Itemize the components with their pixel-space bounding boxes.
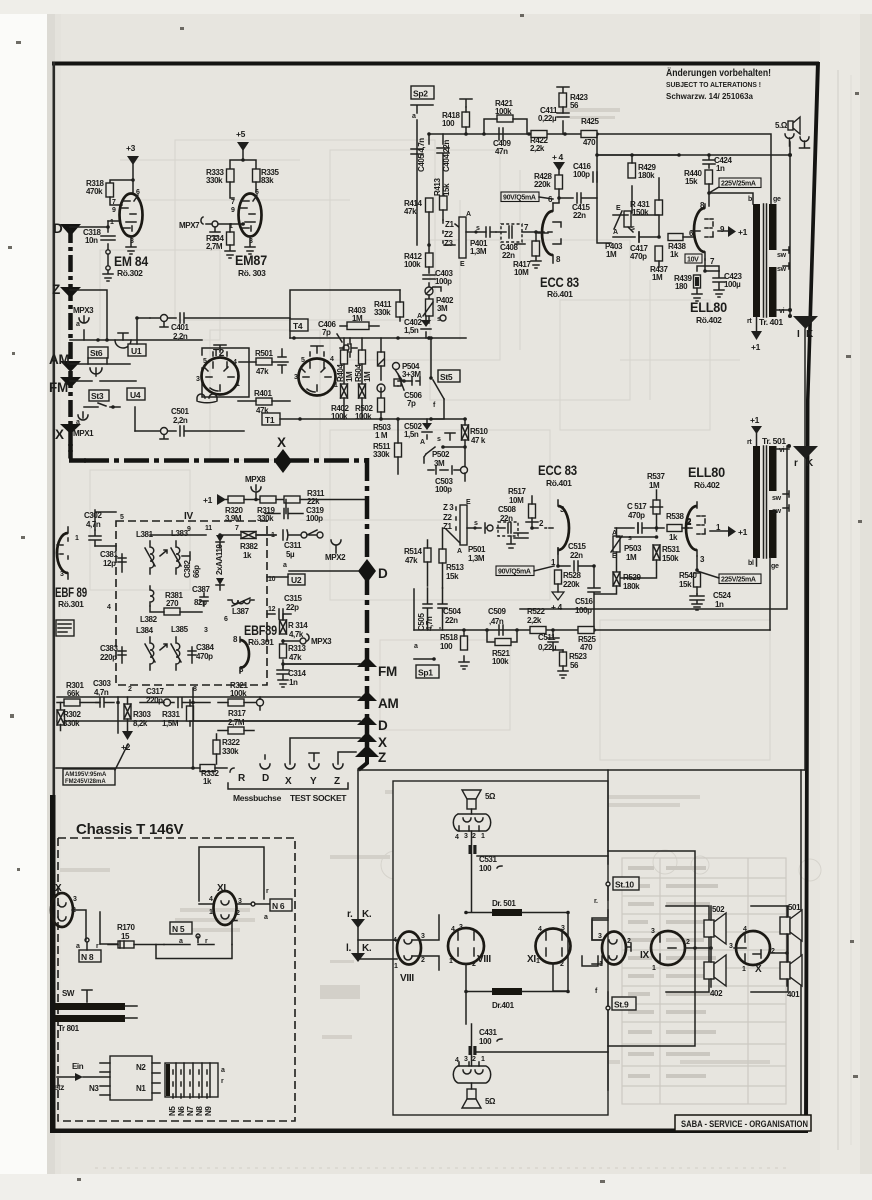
caps below P502 — [428, 466, 460, 474]
svg-text:15k: 15k — [679, 580, 692, 589]
capacitor C314 1n — [277, 664, 289, 687]
secondary bars — [769, 446, 777, 491]
svg-text:D: D — [53, 221, 63, 236]
svg-text:5: 5 — [203, 358, 207, 365]
svg-text:r: r — [794, 458, 798, 469]
contact at 125,340 — [115, 333, 131, 348]
svg-text:1: 1 — [449, 958, 453, 965]
svg-text:U4: U4 — [130, 390, 141, 400]
svg-text:47k: 47k — [289, 653, 302, 662]
trimmer arrows between coils — [160, 550, 167, 556]
svg-text:180k: 180k — [638, 171, 655, 180]
svg-text:sw: sw — [772, 508, 782, 515]
resistor chain x=381 — [378, 352, 385, 366]
resistor R333 — [227, 169, 235, 182]
svg-text:SABA - SERVICE - ORGANISATION: SABA - SERVICE - ORGANISATION — [681, 1119, 808, 1129]
svg-text:Z3: Z3 — [444, 239, 453, 248]
main bottom bus y=630 — [414, 629, 770, 631]
svg-text:R322: R322 — [222, 738, 240, 747]
svg-text:AM: AM — [378, 696, 399, 711]
svg-text:1k: 1k — [669, 533, 678, 542]
svg-text:MPX3: MPX3 — [311, 637, 332, 646]
resistor R425 470 — [581, 131, 597, 138]
svg-text:+1: +1 — [203, 495, 213, 505]
svg-text:100µ: 100µ — [724, 280, 741, 289]
tube EBF89 Rö.301 first — [57, 533, 68, 573]
MPX3 socket right — [283, 634, 309, 641]
svg-text:2: 2 — [421, 957, 425, 964]
svg-text:Messbuchse: Messbuchse — [233, 793, 282, 803]
svg-text:330k: 330k — [206, 176, 223, 185]
svg-text:225V/25mA: 225V/25mA — [721, 577, 756, 584]
svg-text:7: 7 — [231, 199, 235, 206]
resistor R320 3,9M — [228, 496, 244, 503]
svg-text:R425: R425 — [581, 117, 599, 126]
svg-text:R: R — [238, 773, 246, 784]
svg-text:sw: sw — [777, 266, 787, 273]
svg-text:D: D — [262, 773, 269, 784]
svg-text:TEST SOCKET: TEST SOCKET — [290, 793, 347, 803]
X2 arrow node — [357, 732, 377, 742]
svg-text:Z1: Z1 — [445, 220, 454, 229]
svg-text:Sp2: Sp2 — [413, 89, 428, 99]
choke Dr 401 — [492, 988, 522, 995]
U4 box — [127, 388, 145, 400]
svg-text:330k: 330k — [373, 450, 390, 459]
svg-text:Rö.402: Rö.402 — [696, 315, 722, 325]
svg-text:3: 3 — [196, 376, 200, 383]
small oval tube VIII left — [397, 932, 421, 965]
svg-text:K.: K. — [362, 943, 372, 954]
svg-text:1M: 1M — [626, 553, 637, 562]
svg-text:4,7n: 4,7n — [86, 520, 101, 529]
+1 arrow from pin9 — [718, 230, 728, 232]
svg-text:ELL80: ELL80 — [690, 300, 727, 315]
svg-text:90V/Q5mA: 90V/Q5mA — [503, 195, 536, 202]
socket Y — [309, 753, 319, 761]
svg-text:C524: C524 — [713, 591, 731, 600]
wire from U1 up to C401 row — [137, 318, 150, 344]
svg-text:220p: 220p — [146, 696, 163, 705]
node X arrow — [60, 424, 81, 434]
svg-text:1: 1 — [481, 833, 485, 840]
curl symbol left — [197, 394, 217, 403]
wire top node — [131, 178, 135, 182]
svg-text:R528: R528 — [563, 571, 581, 580]
svg-text:T1: T1 — [265, 415, 275, 425]
svg-text:6: 6 — [255, 189, 259, 196]
resistor R438 1k — [668, 234, 683, 241]
resistor R332 1k — [200, 765, 215, 772]
svg-text:A: A — [420, 439, 425, 446]
capacitor C311 5u polarized — [283, 530, 288, 540]
svg-text:C516: C516 — [575, 597, 593, 606]
svg-text:X: X — [277, 435, 286, 450]
svg-text:Dr.401: Dr.401 — [492, 1001, 515, 1010]
module box around T2 — [202, 348, 249, 397]
svg-text:Rö.401: Rö.401 — [547, 289, 573, 299]
svg-text:22n: 22n — [570, 551, 583, 560]
svg-text:R529: R529 — [623, 573, 641, 582]
transformer Tr401 primary bar — [753, 204, 760, 317]
svg-text:12p: 12p — [103, 559, 116, 568]
svg-text:180: 180 — [675, 282, 688, 291]
svg-text:R401: R401 — [254, 389, 272, 398]
cathode wires — [697, 259, 719, 271]
resistor R514 47k — [424, 548, 431, 562]
resistor R513 15k — [439, 549, 446, 563]
svg-text:a: a — [264, 914, 268, 921]
svg-text:XI: XI — [527, 954, 536, 965]
wire FM row — [283, 663, 360, 665]
tube ELL80 second — [686, 506, 697, 550]
svg-text:D: D — [378, 718, 388, 733]
Netz block — [110, 1056, 152, 1100]
P502 contact T — [445, 433, 455, 440]
svg-text:R 314: R 314 — [288, 621, 308, 630]
svg-text:L387: L387 — [232, 607, 250, 616]
St9 connector — [606, 1006, 610, 1010]
svg-text:,47n: ,47n — [489, 617, 504, 626]
resistor R331 1,5M — [187, 706, 194, 721]
tube EM84 Rö.302 — [120, 194, 143, 237]
svg-text:L385: L385 — [171, 625, 189, 634]
svg-text:Chassis T 146V: Chassis T 146V — [76, 821, 183, 838]
svg-text:47k: 47k — [256, 367, 269, 376]
svg-text:St5: St5 — [440, 372, 453, 382]
svg-text:Z2: Z2 — [444, 230, 453, 239]
svg-text:3: 3 — [421, 933, 425, 940]
node FM arrow — [60, 377, 81, 388]
svg-text:N2: N2 — [136, 1063, 146, 1072]
svg-text:R513: R513 — [446, 563, 464, 572]
svg-text:R514: R514 — [404, 547, 422, 556]
tube VIII big circle — [448, 928, 484, 964]
resistor R529 180k boxed — [613, 572, 620, 586]
svg-text:10M: 10M — [514, 268, 529, 277]
svg-text:MPX3: MPX3 — [73, 306, 94, 315]
switch contacts below C318 — [106, 250, 110, 254]
module box — [393, 781, 608, 1115]
svg-text:330k: 330k — [374, 308, 391, 317]
bracket Messbuchse — [228, 783, 348, 789]
resistor R523 56 — [560, 652, 567, 666]
vertical wire C405 branch — [416, 120, 418, 245]
svg-text:Y: Y — [310, 776, 317, 787]
svg-text:100p: 100p — [575, 606, 592, 615]
svg-text:E: E — [466, 499, 471, 506]
svg-text:2,2k: 2,2k — [530, 144, 545, 153]
svg-text:15k: 15k — [685, 177, 698, 186]
resistor R510 47k — [462, 425, 469, 440]
svg-text:Tr 801: Tr 801 — [58, 1024, 80, 1033]
FM arrow node — [357, 657, 377, 667]
svg-text:a: a — [414, 643, 418, 650]
svg-text:2: 2 — [236, 910, 240, 917]
svg-text:0,22µ: 0,22µ — [538, 114, 557, 123]
wire bus corner to speaker line — [709, 193, 753, 204]
socket X — [285, 764, 295, 769]
svg-text:C509: C509 — [488, 607, 506, 616]
svg-text:5Ω: 5Ω — [485, 792, 496, 801]
svg-text:3M: 3M — [437, 304, 448, 313]
svg-text:401: 401 — [787, 990, 800, 999]
svg-text:502: 502 — [712, 905, 725, 914]
svg-text:2,7M: 2,7M — [228, 718, 245, 727]
svg-text:100p: 100p — [435, 485, 452, 494]
svg-text:100p: 100p — [306, 514, 323, 523]
svg-text:A: A — [457, 548, 462, 555]
box around 501/401 — [751, 906, 788, 992]
svg-text:Z: Z — [52, 282, 60, 297]
svg-text:R170: R170 — [117, 923, 135, 932]
svg-text:1k: 1k — [203, 777, 212, 786]
svg-text:4: 4 — [330, 356, 334, 363]
wire top row inside box — [150, 534, 276, 536]
svg-text:N 5: N 5 — [172, 924, 185, 934]
svg-text:X: X — [55, 427, 64, 442]
main top bus y=134 — [429, 134, 790, 204]
svg-text:7: 7 — [112, 199, 116, 206]
svg-text:R517: R517 — [508, 487, 526, 496]
trimmer circle — [425, 287, 433, 295]
resistor R525 470 — [578, 627, 594, 634]
tube ELL80 Rö.402 pentode — [694, 208, 705, 252]
tube EM87 Rö.303 — [239, 194, 262, 237]
tube T3 triode-hexode circle — [299, 359, 336, 396]
svg-text:1M: 1M — [606, 250, 617, 259]
svg-text:Änderungen vorbehalten!: Änderungen vorbehalten! — [666, 66, 771, 79]
Sp2 box — [411, 86, 434, 99]
svg-text:R313: R313 — [288, 644, 306, 653]
svg-text:3: 3 — [73, 896, 77, 903]
svg-text:X: X — [378, 735, 387, 750]
svg-text:C515: C515 — [568, 542, 586, 551]
capacitor C319 100p — [265, 500, 303, 519]
tube IX circle — [651, 931, 685, 965]
striped connector block — [165, 1063, 218, 1097]
socket R — [230, 768, 234, 772]
resistor R319 330k — [260, 496, 276, 503]
resistor R313 47k — [280, 644, 287, 658]
svg-text:5: 5 — [301, 357, 305, 364]
T2 top cap — [214, 345, 226, 352]
svg-text:vi: vi — [779, 308, 785, 315]
outer box top wire — [358, 769, 805, 771]
svg-text:L384: L384 — [136, 626, 154, 635]
antenna T top — [460, 99, 472, 107]
AM arrow node — [357, 691, 377, 701]
resistor R437 1M — [655, 246, 663, 261]
svg-text:3: 3 — [651, 928, 655, 935]
node AM arrow — [60, 361, 81, 372]
resistor R302 330k boxed — [57, 710, 65, 725]
svg-text:Sp1: Sp1 — [418, 668, 433, 678]
svg-text:Rö.402: Rö.402 — [694, 480, 720, 490]
T4 box — [290, 319, 308, 331]
resistor R440 15k — [705, 170, 713, 184]
svg-text:1: 1 — [394, 963, 398, 970]
node to bus — [116, 701, 120, 705]
svg-text:90V/Q5mA: 90V/Q5mA — [498, 569, 531, 576]
tube ECC83 Ro.401 triode A — [542, 211, 553, 255]
svg-text:N1: N1 — [136, 1084, 146, 1093]
svg-text:etz: etz — [54, 1083, 64, 1092]
faint bottom dotted line — [95, 1167, 790, 1169]
svg-text:s: s — [437, 436, 441, 443]
svg-text:470: 470 — [580, 643, 593, 652]
D diamond node — [358, 559, 376, 583]
capacitor C423 100u — [713, 271, 725, 297]
svg-text:a: a — [76, 321, 80, 328]
+1 arrow bottom — [756, 317, 758, 331]
svg-text:22p: 22p — [286, 603, 299, 612]
resistor R428 220k — [555, 175, 563, 189]
svg-text:St3: St3 — [91, 391, 104, 401]
svg-text:r.: r. — [594, 898, 598, 905]
svg-text:15k: 15k — [442, 183, 451, 196]
anode wire up — [553, 202, 559, 204]
svg-text:ECC 83: ECC 83 — [540, 275, 580, 290]
svg-text:SW: SW — [62, 989, 75, 998]
svg-text:2,2n: 2,2n — [173, 332, 188, 341]
svg-text:X: X — [285, 776, 292, 787]
svg-text:56: 56 — [570, 661, 579, 670]
svg-text:+3: +3 — [126, 143, 136, 153]
svg-text:100k: 100k — [492, 657, 509, 666]
node D arrow — [60, 224, 81, 236]
svg-text:22n: 22n — [502, 251, 515, 260]
svg-text:s: s — [476, 225, 480, 232]
svg-text:7: 7 — [235, 525, 239, 532]
tube socket top — [453, 814, 490, 831]
svg-text:s: s — [474, 520, 478, 527]
svg-text:10V: 10V — [687, 257, 699, 264]
10V box — [685, 254, 702, 263]
svg-text:N 8: N 8 — [81, 952, 94, 962]
svg-text:1: 1 — [742, 966, 746, 973]
speaker 5ohm top — [462, 790, 481, 799]
svg-text:R331: R331 — [162, 710, 180, 719]
pin1 wire — [210, 227, 220, 239]
svg-text:1: 1 — [481, 1056, 485, 1063]
capacitor C409 47n — [499, 128, 503, 140]
svg-text:220p: 220p — [100, 653, 117, 662]
speaker 401 — [780, 962, 790, 979]
svg-text:Dr. 501: Dr. 501 — [492, 899, 516, 908]
svg-text:47 k: 47 k — [471, 436, 486, 445]
svg-text:+1: +1 — [738, 227, 748, 237]
svg-text:4: 4 — [451, 926, 455, 933]
svg-text:Schwarzw. 14/ 251063a: Schwarzw. 14/ 251063a — [666, 92, 754, 101]
wire AM row — [70, 363, 130, 365]
svg-text:3: 3 — [294, 374, 298, 381]
svg-text:Rö.301: Rö.301 — [248, 637, 274, 647]
svg-text:180k: 180k — [623, 582, 640, 591]
box 90V/05mA — [501, 192, 539, 202]
wire wiper to C508 — [467, 523, 491, 533]
main wire y=338 — [290, 337, 466, 339]
svg-text:AM195V:95mA: AM195V:95mA — [65, 772, 107, 778]
St6 box — [88, 347, 108, 358]
resistor R540 15k — [694, 573, 701, 587]
svg-text:C381: C381 — [100, 550, 118, 559]
svg-text:ELL80: ELL80 — [688, 465, 725, 480]
svg-text:22k: 22k — [307, 497, 320, 506]
wire vi to node K — [776, 448, 789, 450]
svg-text:A: A — [466, 211, 471, 218]
svg-text:EM87: EM87 — [235, 253, 267, 268]
svg-text:P502: P502 — [432, 450, 450, 459]
svg-text:VIII: VIII — [400, 973, 414, 984]
svg-text:FM245V/28mA: FM245V/28mA — [65, 779, 106, 785]
frame bottom border — [52, 1129, 807, 1134]
svg-text:7p: 7p — [322, 328, 331, 337]
wire vi to node — [776, 309, 790, 311]
svg-text:100p: 100p — [573, 170, 590, 179]
svg-text:1,3M: 1,3M — [470, 247, 487, 256]
svg-text:+5: +5 — [236, 129, 246, 139]
MPX1 socket — [78, 412, 88, 420]
ghost bleed-through texture (decorative, from reverse side of paper) — [90, 140, 821, 881]
svg-text:St6: St6 — [90, 348, 103, 358]
tube T2 heptode circle — [202, 358, 239, 395]
wire D2 row — [57, 720, 360, 722]
svg-text:56: 56 — [570, 101, 579, 110]
svg-text:+ 4: + 4 — [551, 602, 563, 612]
tube XI big circle — [536, 929, 571, 964]
svg-text:6: 6 — [224, 616, 228, 623]
svg-text:a: a — [221, 1067, 225, 1074]
resistor R417 10M — [532, 241, 540, 256]
svg-text:R382: R382 — [240, 542, 258, 551]
svg-text:470p: 470p — [628, 511, 645, 520]
frame left border — [53, 62, 56, 797]
wire X row to socket — [290, 738, 360, 764]
svg-text:270: 270 — [166, 599, 179, 608]
resistor R528 220k — [555, 570, 562, 584]
svg-text:2: 2 — [472, 1056, 476, 1063]
tube X circle — [736, 931, 770, 965]
svg-text:330k: 330k — [63, 719, 80, 728]
svg-text:47k: 47k — [404, 207, 417, 216]
svg-text:C405 4,7n: C405 4,7n — [417, 138, 426, 172]
svg-text:ECC 83: ECC 83 — [538, 463, 578, 478]
svg-text:2: 2 — [128, 686, 132, 693]
svg-text:83k: 83k — [261, 176, 274, 185]
svg-text:3: 3 — [464, 1056, 468, 1063]
wires to R333/R335 — [230, 160, 256, 169]
svg-text:R501: R501 — [255, 349, 273, 358]
svg-text:Z: Z — [334, 776, 340, 787]
svg-text:K.: K. — [362, 909, 372, 920]
svg-text:220k: 220k — [534, 180, 551, 189]
resistor R382 1k boxed — [241, 532, 256, 539]
Z arrow node — [355, 745, 379, 757]
svg-text:EBF 89: EBF 89 — [55, 585, 87, 600]
svg-text:ge: ge — [773, 196, 781, 203]
svg-text:2: 2 — [560, 961, 564, 968]
+2 arrow — [122, 731, 133, 740]
svg-text:100k: 100k — [230, 689, 247, 698]
svg-text:R303: R303 — [133, 710, 151, 719]
svg-text:a: a — [76, 943, 80, 950]
r K triangle — [793, 446, 818, 459]
svg-text:11: 11 — [205, 525, 212, 532]
svg-text:SUBJECT TO ALTERATIONS !: SUBJECT TO ALTERATIONS ! — [666, 82, 761, 89]
U1 box — [128, 344, 146, 356]
N5 box — [170, 922, 192, 934]
